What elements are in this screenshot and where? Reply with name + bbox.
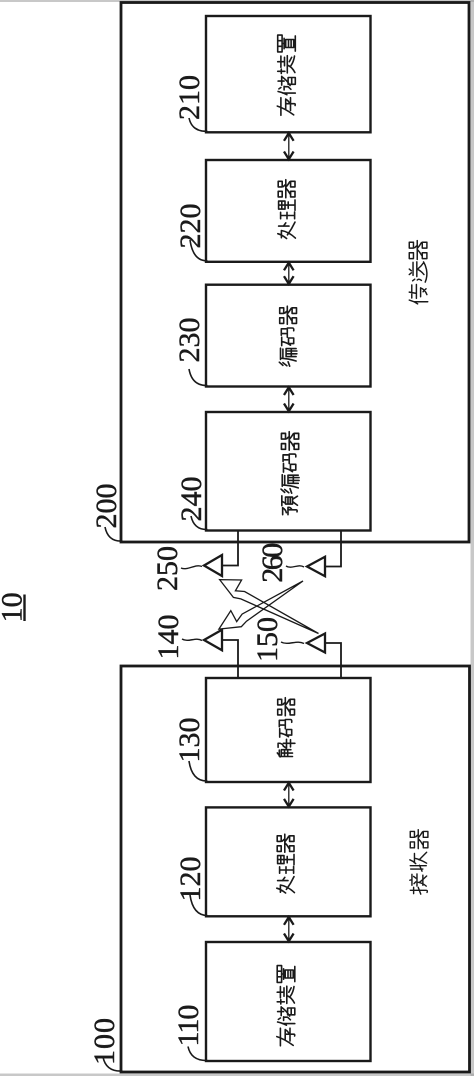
decoder box 130 xyxy=(206,678,371,782)
svg-text:230: 230 xyxy=(173,318,206,363)
leader hook for 100 xyxy=(103,1057,123,1071)
text encoder 230 xyxy=(279,306,297,366)
encoder box 230 xyxy=(206,285,371,387)
svg-text:240: 240 xyxy=(175,477,208,522)
svg-text:110: 110 xyxy=(172,1006,205,1047)
svg-text:210: 210 xyxy=(173,75,206,120)
storage device box 110 xyxy=(206,942,371,1061)
arrow between 110 and 120 xyxy=(284,917,294,941)
leader hook for 200 xyxy=(105,527,123,541)
svg-text:130: 130 xyxy=(173,718,206,763)
svg-text:150: 150 xyxy=(251,617,284,662)
text storage device 110 xyxy=(277,966,295,1046)
leader for 150 xyxy=(281,642,304,644)
leader hook for 210 xyxy=(189,118,208,131)
wireless link bolt from antenna 260 to antenna 140 xyxy=(219,581,303,629)
precoder box 240 xyxy=(206,412,371,531)
wireless link bolt from antenna 250 to antenna 150 xyxy=(220,580,319,634)
transmitter block 200 outer box xyxy=(121,3,469,543)
processor box 120 xyxy=(206,807,371,916)
leader for 250 xyxy=(181,566,202,569)
leader for 260 xyxy=(286,566,304,567)
svg-text:200: 200 xyxy=(90,484,123,529)
antenna 250 with feed wire to precoder 240 xyxy=(204,531,238,577)
scan edge noise top xyxy=(0,0,474,2)
svg-text:260: 260 xyxy=(256,544,289,583)
scan edge noise bottom xyxy=(0,1074,474,1076)
storage device box 210 xyxy=(206,16,371,132)
arrow between 230 and 220 xyxy=(284,263,294,284)
leader hook for 220 xyxy=(190,240,208,261)
antenna 150 with feed wire to decoder 130 xyxy=(307,634,341,679)
leader hook for 130 xyxy=(189,761,208,781)
leader hook for 240 xyxy=(191,516,208,530)
leader hook for 110 xyxy=(188,1047,208,1061)
text storage device 210 xyxy=(277,35,295,115)
text processor 120 xyxy=(277,834,295,893)
svg-text:100: 100 xyxy=(88,1017,121,1065)
arrow between 240 and 230 xyxy=(284,387,294,411)
text decoder 130 xyxy=(277,698,295,757)
text receiver label xyxy=(410,830,428,894)
antenna 140 with feed wire to decoder 130 xyxy=(204,630,238,678)
arrow between 120 and 130 xyxy=(284,783,294,807)
text transmitter label xyxy=(409,241,427,304)
text processor 220 xyxy=(278,180,296,239)
svg-text:140: 140 xyxy=(152,615,185,660)
arrow between 220 and 210 xyxy=(284,133,294,159)
scan edge noise right xyxy=(471,0,474,1076)
leader for 140 xyxy=(182,639,202,641)
figure label underline xyxy=(23,595,25,622)
leader hook for 120 xyxy=(190,895,208,916)
processor box 220 xyxy=(206,160,371,262)
antenna 260 with feed wire to precoder 240 xyxy=(307,531,341,577)
receiver block 100 outer box xyxy=(121,666,470,1072)
svg-text:250: 250 xyxy=(151,546,184,591)
svg-text:120: 120 xyxy=(174,857,207,902)
text precoder 240 xyxy=(281,432,299,515)
leader hook for 230 xyxy=(189,369,208,386)
